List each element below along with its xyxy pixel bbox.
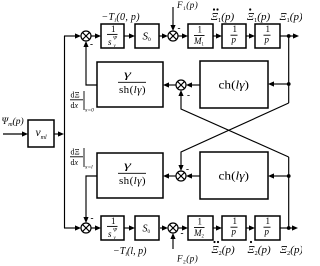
block 1/p fourth (255, 216, 280, 240)
svg-text:Ψm(p): Ψm(p) (2, 116, 24, 128)
arrowhead into summer S5 left (75, 225, 81, 230)
wire left branch to summer S1 (64, 35, 76, 37)
summer S3 (176, 80, 186, 90)
label dXi/dx at x=0 (70, 91, 94, 114)
arrowhead into summer S4 from ch2 (186, 173, 192, 178)
arrowhead into block 1/p second (249, 33, 255, 38)
svg-text:p: p (264, 227, 270, 237)
svg-text:p: p (264, 35, 270, 45)
arrowhead feedback into summer S5 top (83, 217, 88, 223)
block 1/M2 (188, 216, 213, 240)
wire block 1/M1 to block 1/p (213, 35, 217, 37)
arrowhead into summer S6 (162, 225, 168, 230)
svg-text:Ξ2(p): Ξ2(p) (248, 244, 271, 257)
wire gsh1 feedback to summer S1 (86, 46, 97, 85)
svg-text:1: 1 (198, 25, 203, 35)
wire summer S6 to block 1/M2 (178, 227, 183, 229)
svg-text:p: p (231, 35, 237, 45)
arrowhead into block S0 (129, 33, 135, 38)
wire block 1/p third to block 1/p fourth (246, 227, 250, 229)
wire block 1/s to block S0 (124, 35, 130, 37)
arrowhead cross into summer S4 top (178, 165, 183, 171)
svg-text:sh(lγ): sh(lγ) (119, 84, 146, 96)
label 1/p fraction fourth (264, 216, 271, 237)
arrowhead into block 1/p fourth (249, 225, 255, 230)
junction node ch1 feed (287, 82, 291, 86)
wire nu output to left branch node (54, 133, 59, 135)
svg-text:-: - (187, 90, 190, 100)
label Xi2dd(p) (212, 241, 235, 257)
svg-text:1: 1 (111, 216, 116, 226)
arrowhead into block gsh2 (163, 173, 169, 178)
arrowhead into block gsh1 (163, 82, 169, 87)
label 1/M2 fraction (193, 217, 205, 240)
svg-text:Ξ1(p): Ξ1(p) (211, 11, 234, 24)
block nu_ml (28, 120, 54, 147)
label Xi2d(p) (248, 241, 271, 257)
arrowhead cross into summer S3 bottom (178, 90, 183, 96)
label 1/s fraction bottom block (107, 216, 118, 241)
arrowhead into block 1/p (216, 33, 222, 38)
arrowhead into summer S2 (162, 33, 168, 38)
wire Xi2 feed into ch2 (273, 175, 289, 177)
svg-text:1: 1 (111, 24, 116, 34)
arrowhead feedback into summer S1 bottom (83, 41, 88, 47)
svg-text:Ξ1(p): Ξ1(p) (247, 11, 270, 24)
arrowhead into block 1/M1 (182, 33, 188, 38)
wire block 1/p to block 1/p second (246, 35, 250, 37)
svg-text:-: - (181, 228, 184, 238)
svg-text:-: - (91, 213, 94, 223)
svg-text:s: s (108, 229, 112, 239)
block 1/p second (255, 24, 280, 48)
wire ch2 to summer S4 (191, 175, 200, 177)
svg-text:Ξ2(p): Ξ2(p) (280, 244, 302, 257)
arrowhead into summer S3 from ch1 (186, 82, 192, 87)
wire gsh2 feedback to summer S5 (86, 176, 97, 218)
block S0 bottom (135, 216, 159, 240)
label 1/p fraction third (231, 216, 238, 237)
wire ch1 to summer S3 (191, 84, 200, 86)
svg-text:-: - (186, 164, 189, 174)
summer S6 (168, 223, 178, 233)
svg-text:sh(lγ): sh(lγ) (119, 175, 146, 187)
wire summer S1 to block 1/s (91, 35, 96, 37)
svg-text:ch(lγ): ch(lγ) (219, 80, 250, 92)
svg-text:−Ti(0, p): −Ti(0, p) (102, 12, 141, 24)
wire block S0 bottom to summer S6 (160, 227, 163, 229)
wire output Xi2 (280, 227, 293, 229)
summer S4 (176, 171, 186, 181)
wire diagonal Xi1 to summer S4 (181, 103, 289, 166)
svg-text:s: s (108, 37, 112, 47)
arrowhead F2 into summer S6 (170, 233, 175, 239)
arrowhead F1 into summer S2 (170, 25, 175, 31)
arrowhead into ch1 right (268, 81, 274, 86)
block ch(l gamma) upper (200, 61, 268, 108)
block ch(l gamma) lower (200, 152, 268, 199)
summer S2 (168, 31, 178, 41)
block 1/s bottom (101, 216, 124, 240)
arrowhead into block S0 bottom (129, 225, 135, 230)
wire F1 input down into summer S2 (172, 7, 174, 26)
wire diagonal Xi2 to summer S3 (181, 95, 289, 157)
arrowhead into block nu (22, 131, 28, 136)
block S0 top (135, 24, 159, 48)
label 1/p fraction first (231, 24, 238, 45)
block gamma/sh(l gamma) lower (97, 153, 163, 198)
label 1/p fraction second (264, 24, 271, 45)
svg-text:1: 1 (233, 216, 238, 226)
label 1/s fraction top block (107, 24, 118, 49)
svg-text:dΞ: dΞ (71, 148, 80, 157)
wire block 1/s bottom to block S0 bottom (124, 227, 130, 229)
wire input Psi_m to block nu (3, 133, 23, 135)
svg-text:Ξ2(p): Ξ2(p) (212, 244, 235, 257)
svg-text:1: 1 (198, 217, 203, 227)
label gamma/sh lower block (118, 161, 146, 188)
wire block 1/M2 to block 1/p third (213, 227, 217, 229)
summer S5 (81, 223, 91, 233)
wire Xi1 feed into ch1 (273, 83, 289, 85)
svg-text:1: 1 (266, 216, 271, 226)
label 1/M1 fraction (193, 25, 205, 48)
svg-text:Ξ1(p): Ξ1(p) (280, 11, 303, 24)
svg-text:ch(lγ): ch(lγ) (219, 171, 250, 183)
arrowhead into block 1/s (95, 33, 101, 38)
wire block S0 to summer S2 (159, 35, 163, 37)
summer S1 (81, 31, 91, 41)
label Xi1dd(p) (211, 8, 234, 24)
wire summer S2 to block 1/M1 (178, 35, 183, 37)
wire summer S4 to block gsh2 (168, 175, 176, 177)
svg-text:x=l: x=l (84, 165, 93, 171)
svg-text:-: - (178, 23, 181, 33)
block 1/M1 (188, 24, 213, 48)
arrowhead into block 1/p third (216, 225, 222, 230)
svg-text:x=0: x=0 (84, 108, 94, 114)
arrowhead into summer S1 (75, 33, 81, 38)
label gamma/sh upper block (118, 70, 146, 97)
wire output Xi1 (280, 35, 294, 37)
block gamma/sh(l gamma) upper (97, 62, 163, 107)
block 1/p third (222, 216, 246, 240)
arrowhead output Xi1 (293, 33, 299, 38)
wire left branch to summer S5 (64, 227, 76, 229)
arrowhead into block 1/s bottom (95, 225, 101, 230)
svg-text:−Ti(l, p): −Ti(l, p) (113, 246, 147, 258)
svg-text:dx: dx (71, 158, 79, 167)
svg-text:p: p (231, 227, 237, 237)
arrowhead into block 1/M2 (182, 225, 188, 230)
svg-text:1: 1 (233, 24, 238, 34)
arrowhead into ch2 right (268, 173, 274, 178)
svg-text:dx: dx (71, 101, 79, 110)
wire summer S3 to block gsh1 (168, 84, 176, 86)
wire summer S5 to block 1/s bottom (91, 227, 96, 229)
junction node ch2 feed (287, 174, 291, 178)
svg-text:dΞ: dΞ (71, 91, 80, 100)
wire Xi1 feedback vertical right (288, 36, 290, 103)
svg-text:1: 1 (266, 24, 271, 34)
arrowhead output Xi2 (292, 225, 298, 230)
label dXi/dx at x=l (70, 148, 93, 171)
block 1/p first (222, 24, 246, 48)
block 1/s top (101, 24, 124, 48)
wire left branch vertical (64, 36, 66, 228)
junction node Xi2 branch (287, 226, 291, 230)
arrowhead nu output at branch node (58, 131, 64, 136)
junction node Xi1 branch (287, 34, 291, 38)
wire F2 input up into summer S6 (172, 238, 174, 249)
svg-text:-: - (90, 39, 93, 49)
wire Xi2 feedback vertical right (288, 157, 290, 228)
label Xi1d(p) (247, 8, 270, 24)
